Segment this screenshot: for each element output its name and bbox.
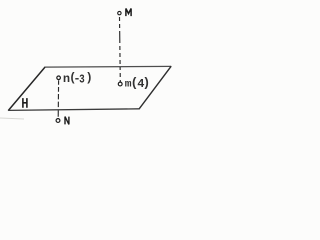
svg-text:): ): [143, 76, 151, 91]
svg-text:): ): [86, 71, 93, 85]
svg-text:3: 3: [79, 73, 85, 87]
